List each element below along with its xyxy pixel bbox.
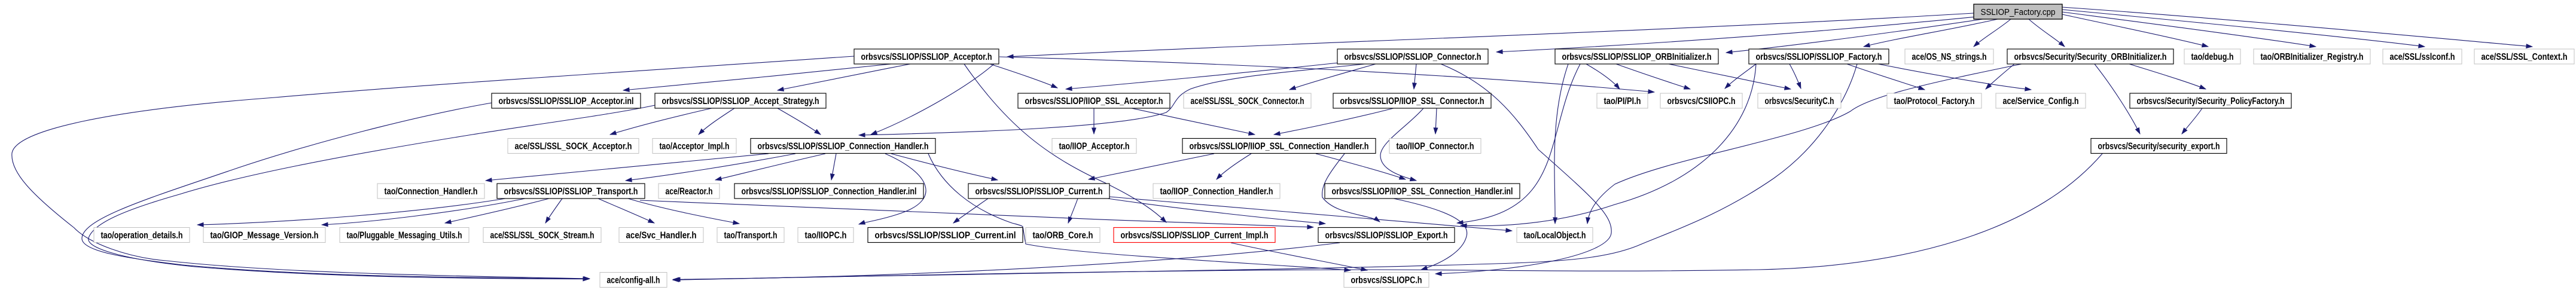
node orbsvcs/Security/security_export.h [2091,139,2227,154]
edge SSLIOP_Transport.h to GIOP_Message_Version.h [322,199,525,225]
node orbsvcs/SSLIOP/IIOP_SSL_Acceptor.h [1018,93,1170,108]
edge SSLIOP_Acceptor.h to SSLIOP_Acceptor.inl [623,64,891,90]
svg-text:orbsvcs/SSLIOP/SSLIOP_Current_: orbsvcs/SSLIOP/SSLIOP_Current_Impl.h [1121,231,1269,241]
svg-text:orbsvcs/SSLIOP/SSLIOP_Current.: orbsvcs/SSLIOP/SSLIOP_Current.h [975,187,1103,197]
node orbsvcs/SSLIOP/IIOP_SSL_Connection_Handler.inl [1325,184,1520,199]
svg-text:tao/IIOPC.h: tao/IIOPC.h [805,231,847,241]
svg-text:orbsvcs/SSLIOP/SSLIOP_Connecti: orbsvcs/SSLIOP/SSLIOP_Connection_Handler… [758,142,929,152]
node orbsvcs/SSLIOP/SSLIOP_Export.h [1318,228,1455,243]
edge SSLIOP_Transport.h to Transport.h [628,199,739,224]
edge SSLIOP_Connector.h to IIOP_SSL_Connector.h [1414,64,1416,89]
edge SSLIOP_Factory.cpp to SSLIOP_Acceptor.h [1007,13,1974,57]
node tao/GIOP_Message_Version.h [203,228,325,243]
edge SSLIOP_Acceptor.h to CSIIOPC.h [999,57,1654,92]
edge IIOP_SSL_Connector.h to IIOP_Connector.h [1435,108,1437,134]
svg-text:orbsvcs/SSLIOP/SSLIOP_Export.h: orbsvcs/SSLIOP/SSLIOP_Export.h [1325,231,1448,241]
node orbsvcs/SSLIOPC.h [1344,273,1429,288]
node tao/Pluggable_Messaging_Utils.h [340,228,469,243]
edge SSLIOP_Factory.cpp to SSLIOP_ORBInitializer.h [1726,19,1983,53]
edge SSLIOP_Accept_Strategy.h to SSL_SOCK_Acceptor.h [610,108,712,135]
svg-text:tao/Connection_Handler.h: tao/Connection_Handler.h [385,187,478,197]
edge security_export.h to config-all.h [673,154,2102,280]
edge SSLIOP_Accept_Strategy.h to config-all.h [89,105,655,279]
edge IIOP_SSL_Connection_Handler.inl to SSLIOPC.h [1394,199,1467,270]
edge SSLIOP_Factory.h to config-all.h [674,64,1857,280]
edge IIOP_SSL_Acceptor.h to IIOP_Acceptor.h [1093,108,1095,134]
edge SSLIOP_Current.h to LocalObject.h [1109,197,1512,231]
svg-text:orbsvcs/SSLIOP/SSLIOP_Factory.: orbsvcs/SSLIOP/SSLIOP_Factory.h [1756,52,1882,62]
svg-text:ace/SSL/SSL_SOCK_Connector.h: ace/SSL/SSL_SOCK_Connector.h [1191,96,1304,106]
svg-text:orbsvcs/SSLIOP/IIOP_SSL_Connec: orbsvcs/SSLIOP/IIOP_SSL_Connection_Handl… [1190,142,1369,152]
edge SSLIOP_Accept_Strategy.h to Acceptor_Impl.h [699,108,734,135]
svg-text:orbsvcs/SSLIOPC.h: orbsvcs/SSLIOPC.h [1351,276,1422,286]
edge SSLIOP_Connector.h to SSLIOPC.h [1435,64,1611,274]
edge IIOP_SSL_Connection_Handler.h to SSLIOP_Current.h [1089,154,1214,179]
edge SSLIOP_Factory.cpp to Security_ORBInitializer.h [2029,19,2065,47]
svg-text:tao/PI/PI.h: tao/PI/PI.h [1604,96,1641,106]
edge SSLIOP_ORBInitializer.h to SSLIOP_Export.h [1457,64,1580,223]
edge IIOP_SSL_Connection_Handler.h to IIOP_Connection_Handler.h [1217,154,1251,179]
edge Security_ORBInitializer.h to Protocol_Factory.h [1986,64,2014,89]
node tao/debug.h [2184,49,2240,64]
node SSLIOP_Factory.cpp [1974,4,2062,19]
edge Security_ORBInitializer.h to LocalObject.h [1587,64,2022,224]
edge SSLIOP_Current.h to SSLIOP_Export.h [1108,199,1325,224]
svg-text:orbsvcs/SSLIOP/IIOP_SSL_Connec: orbsvcs/SSLIOP/IIOP_SSL_Connector.h [1340,96,1484,106]
node orbsvcs/SSLIOP/SSLIOP_Accept_Strategy.h [655,93,826,108]
edge IIOP_SSL_Acceptor.h to IIOP_SSL_Connection_Handler.h [1132,108,1255,135]
node tao/operation_details.h [94,228,190,243]
edge SSLIOP_Connector.h to SSLIOP_Connection_Handler.h [859,64,1365,135]
svg-text:ace/config-all.h: ace/config-all.h [607,276,660,286]
node tao/PI/PI.h [1597,93,1648,108]
svg-text:orbsvcs/SSLIOP/IIOP_SSL_Connec: orbsvcs/SSLIOP/IIOP_SSL_Connection_Handl… [1332,187,1513,197]
node orbsvcs/SSLIOP/SSLIOP_Connection_Handler.inl [734,184,923,199]
node ace/OS_NS_strings.h [1905,49,1993,64]
svg-text:orbsvcs/SSLIOP/SSLIOP_Acceptor: orbsvcs/SSLIOP/SSLIOP_Acceptor.inl [499,96,634,106]
node ace/SSL/SSL_SOCK_Acceptor.h [508,139,639,154]
node tao/ORB_Core.h [1026,228,1100,243]
edge IIOP_SSL_Connection_Handler.h to IIOP_SSL_Connection_Handler.inl [1316,154,1406,179]
node orbsvcs/SSLIOP/SSLIOP_Acceptor.h [854,49,999,64]
svg-text:orbsvcs/SecurityC.h: orbsvcs/SecurityC.h [1765,96,1834,106]
edge IIOP_SSL_Connector.h to IIOP_SSL_Connection_Handler.inl [1380,108,1423,181]
svg-text:tao/LocalObject.h: tao/LocalObject.h [1524,231,1586,241]
svg-text:ace/OS_NS_strings.h: ace/OS_NS_strings.h [1912,52,1987,62]
svg-text:tao/Protocol_Factory.h: tao/Protocol_Factory.h [1894,96,1975,106]
node ace/Svc_Handler.h [619,228,703,243]
edge SSLIOP_Factory.cpp to debug.h [2062,14,2208,47]
edge SSLIOP_Transport.h to SSL_SOCK_Stream.h [545,199,562,223]
edge SSLIOP_ORBInitializer.h to PI.h [1586,64,1620,89]
node orbsvcs/SSLIOP/SSLIOP_Connector.h [1337,49,1488,64]
node orbsvcs/SecurityC.h [1758,93,1841,108]
edge SSLIOP_Connector.h to SSL_SOCK_Connector.h [1289,64,1376,90]
edge SSLIOP_Acceptor.h to SSLIOP_Connection_Handler.h [871,64,994,135]
svg-text:SSLIOP_Factory.cpp: SSLIOP_Factory.cpp [1981,7,2056,17]
svg-text:ace/Service_Config.h: ace/Service_Config.h [2003,96,2079,106]
svg-text:tao/ORB_Core.h: tao/ORB_Core.h [1033,231,1093,241]
svg-text:tao/IIOP_Connection_Handler.h: tao/IIOP_Connection_Handler.h [1160,187,1273,197]
svg-text:orbsvcs/Security/Security_ORBI: orbsvcs/Security/Security_ORBInitializer… [2014,52,2167,62]
edge SSLIOP_Connection_Handler.h to Reactor.h [715,154,825,180]
edge SSLIOP_Connection_Handler.h to SSLIOP_Current.h [891,154,998,180]
edge SSLIOP_Factory.cpp to sslconf.h [2062,10,2425,47]
node ace/Service_Config.h [1996,93,2086,108]
edge Security_ORBInitializer.h to Security_PolicyFactory.h [2129,64,2206,89]
svg-text:orbsvcs/SSLIOP/SSLIOP_ORBIniti: orbsvcs/SSLIOP/SSLIOP_ORBInitializer.h [1562,52,1712,62]
edge SSLIOP_Factory.cpp to SSLIOP_Connector.h [1496,17,1977,52]
node orbsvcs/SSLIOP/SSLIOP_Factory.h [1749,49,1889,64]
edge Security_ORBInitializer.h to security_export.h [2095,64,2140,134]
edge SSLIOP_Factory.cpp to SSL_Context.h [2062,7,2532,47]
svg-text:orbsvcs/SSLIOP/IIOP_SSL_Accept: orbsvcs/SSLIOP/IIOP_SSL_Acceptor.h [1025,96,1163,106]
edge SSLIOP_Factory.h to CSIIOPC.h [1725,64,1756,88]
node orbsvcs/SSLIOP/SSLIOP_Current.h [968,184,1109,199]
node tao/Connection_Handler.h [377,184,484,199]
edge SSLIOP_Connection_Handler.h to SSLIOP_Transport.h [626,154,795,181]
edge IIOP_SSL_Connection_Handler.h to SSLIOP_Export.h [1322,154,1380,222]
svg-text:ace/SSL/sslconf.h: ace/SSL/sslconf.h [2390,52,2455,62]
edge SSLIOP_ORBInitializer.h to CSIIOPC.h [1616,64,1690,89]
edge SSLIOP_Export.h to config-all.h [673,243,1340,279]
svg-text:tao/IIOP_Acceptor.h: tao/IIOP_Acceptor.h [1059,142,1130,152]
edge SSLIOP_Factory.h to Protocol_Factory.h [1847,64,1925,90]
svg-text:ace/SSL/SSL_SOCK_Stream.h: ace/SSL/SSL_SOCK_Stream.h [490,231,595,241]
edge Security_PolicyFactory.h to security_export.h [2182,108,2202,134]
edge SSLIOP_Factory.cpp to ORBInitializer_Registry.h [2062,12,2316,47]
node orbsvcs/SSLIOP/IIOP_SSL_Connector.h [1333,93,1491,108]
svg-text:orbsvcs/Security/Security_Poli: orbsvcs/Security/Security_PolicyFactory.… [2137,96,2285,106]
edge SSLIOP_Factory.cpp to OS_NS_strings.h [1974,19,2011,47]
edge SSLIOP_Acceptor.h to IIOP_SSL_Acceptor.h [990,64,1057,88]
node tao/ORBInitializer_Registry.h [2254,49,2370,64]
edge SSLIOP_Connector.h to IIOP_SSL_Acceptor.h [1066,63,1339,89]
node tao/IIOPC.h [798,228,853,243]
edge SSLIOP_Acceptor.h to config-all.h [12,56,854,279]
svg-text:tao/operation_details.h: tao/operation_details.h [101,231,183,241]
svg-text:tao/Transport.h: tao/Transport.h [724,231,778,241]
edge SSLIOP_Acceptor.h to SSLIOP_Accept_Strategy.h [778,64,910,90]
node orbsvcs/CSIIOPC.h [1660,93,1742,108]
svg-text:orbsvcs/Security/security_expo: orbsvcs/Security/security_export.h [2098,142,2220,152]
edge SSLIOP_ORBInitializer.h to SecurityC.h [1669,64,1791,89]
node tao/LocalObject.h [1517,228,1593,243]
svg-text:orbsvcs/SSLIOP/SSLIOP_Accept_S: orbsvcs/SSLIOP/SSLIOP_Accept_Strategy.h [662,96,819,106]
node orbsvcs/SSLIOP/SSLIOP_Connection_Handler.h [751,139,935,154]
edge SSLIOP_Transport.h to SSLIOP_Export.h [640,200,1313,227]
edge SSLIOP_Transport.h to operation_details.h [197,199,505,225]
node orbsvcs/Security/Security_ORBInitializer.h [2007,49,2173,64]
svg-text:ace/Svc_Handler.h: ace/Svc_Handler.h [626,231,697,241]
edge SSLIOP_Connection_Handler.h to IIOPC.h [859,154,926,224]
edge SSLIOP_Acceptor.inl to config-all.h [82,103,589,279]
edge SSLIOP_ORBInitializer.h to LocalObject.h [1554,64,1568,224]
node ace/Reactor.h [659,184,720,199]
edge SSLIOP_Acceptor.h to SSLIOP_Current_Impl.h [964,64,1166,222]
edge IIOP_SSL_Connector.h to IIOP_SSL_Connection_Handler.h [1274,108,1394,135]
svg-text:tao/ORBInitializer_Registry.h: tao/ORBInitializer_Registry.h [2261,52,2364,62]
svg-text:tao/IIOP_Connector.h: tao/IIOP_Connector.h [1397,142,1474,152]
svg-text:orbsvcs/SSLIOP/SSLIOP_Current.: orbsvcs/SSLIOP/SSLIOP_Current.inl [875,231,1016,241]
node ace/SSL/SSL_Context.h [2474,49,2574,64]
node tao/IIOP_Acceptor.h [1052,139,1136,154]
svg-text:orbsvcs/SSLIOP/SSLIOP_Connecti: orbsvcs/SSLIOP/SSLIOP_Connection_Handler… [742,187,917,197]
svg-text:ace/Reactor.h: ace/Reactor.h [666,187,713,197]
edge SSLIOP_Connection_Handler.h to Connection_Handler.h [486,154,769,181]
edge SSLIOP_Factory.h to SecurityC.h [1790,64,1801,88]
edge SSLIOP_Factory.h to Service_Config.h [1878,64,2031,90]
svg-text:tao/Pluggable_Messaging_Utils.: tao/Pluggable_Messaging_Utils.h [347,231,462,241]
node tao/IIOP_Connection_Handler.h [1153,184,1280,199]
edge SSLIOP_Connection_Handler.h to SSLIOP_Connection_Handler.inl [831,154,836,180]
edge SSLIOP_Current.h to ORB_Core.h [1068,199,1078,223]
edge SSLIOP_Connection_Handler.h to SSLIOPC.h [928,154,1351,270]
node orbsvcs/SSLIOP/SSLIOP_Current_Impl.h [1114,228,1275,243]
edge SSLIOP_Current.h to SSLIOP_Current.inl [953,199,988,223]
node orbsvcs/SSLIOP/SSLIOP_Transport.h [497,184,645,199]
svg-text:tao/debug.h: tao/debug.h [2191,52,2234,62]
svg-text:tao/GIOP_Message_Version.h: tao/GIOP_Message_Version.h [211,231,319,241]
edge SSLIOP_Accept_Strategy.h to SSLIOP_Connection_Handler.h [778,108,821,135]
node tao/IIOP_Connector.h [1389,139,1481,154]
node ace/config-all.h [600,273,667,288]
node ace/SSL/SSL_SOCK_Connector.h [1184,93,1311,108]
node ace/SSL/sslconf.h [2383,49,2462,64]
svg-text:ace/SSL/SSL_Context.h: ace/SSL/SSL_Context.h [2482,52,2568,62]
edge SSLIOP_Transport.h to Svc_Handler.h [598,199,654,223]
edge SSLIOP_Current_Impl.h to SSLIOPC.h [1231,243,1367,270]
node tao/Acceptor_Impl.h [653,139,736,154]
svg-text:orbsvcs/SSLIOP/SSLIOP_Acceptor: orbsvcs/SSLIOP/SSLIOP_Acceptor.h [861,52,992,62]
node orbsvcs/SSLIOP/IIOP_SSL_Connection_Handler.h [1182,139,1376,154]
node ace/SSL/SSL_SOCK_Stream.h [483,228,601,243]
svg-text:orbsvcs/SSLIOP/SSLIOP_Connecto: orbsvcs/SSLIOP/SSLIOP_Connector.h [1345,52,1481,62]
svg-text:orbsvcs/SSLIOP/SSLIOP_Transpor: orbsvcs/SSLIOP/SSLIOP_Transport.h [504,187,638,197]
node tao/Transport.h [717,228,784,243]
node orbsvcs/Security/Security_PolicyFactory.h [2130,93,2291,108]
node orbsvcs/SSLIOP/SSLIOP_Acceptor.inl [492,93,641,108]
edge SSLIOP_Transport.h to Pluggable_Messaging_Utils.h [445,199,549,223]
node orbsvcs/SSLIOP/SSLIOP_ORBInitializer.h [1555,49,1718,64]
edge SSLIOP_Factory.h to SSLIOP_Export.h [1461,64,1756,226]
svg-text:orbsvcs/CSIIOPC.h: orbsvcs/CSIIOPC.h [1667,96,1736,106]
svg-text:tao/Acceptor_Impl.h: tao/Acceptor_Impl.h [660,142,730,152]
edge SSLIOP_Factory.cpp to SSLIOP_Factory.h [1864,19,1998,47]
node tao/Protocol_Factory.h [1887,93,1981,108]
node orbsvcs/SSLIOP/SSLIOP_Current.inl [868,228,1023,243]
svg-text:ace/SSL/SSL_SOCK_Acceptor.h: ace/SSL/SSL_SOCK_Acceptor.h [515,142,632,152]
